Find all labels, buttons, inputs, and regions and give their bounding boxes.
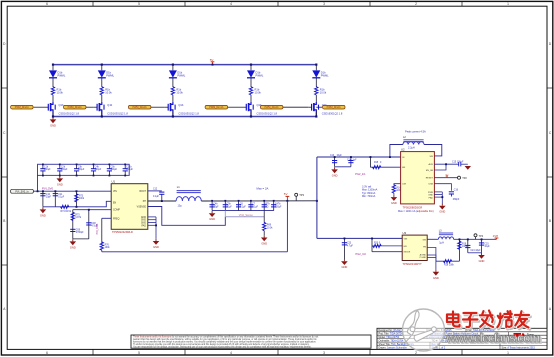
- svg-text:R18 100k: R18 100k: [444, 264, 455, 266]
- svg-text:4: 4: [230, 351, 232, 355]
- svg-text:PH: PH: [143, 201, 147, 203]
- svg-text:5: 5: [138, 351, 140, 355]
- svg-text:22µF: 22µF: [227, 206, 233, 208]
- svg-text:VSENSE: VSENSE: [137, 207, 147, 209]
- svg-text:PVI_5V0: PVI_5V0: [42, 187, 53, 191]
- svg-text:VIN: VIN: [113, 191, 117, 193]
- svg-text:AGND: AGND: [420, 253, 427, 256]
- svg-text:PG2_In3: PG2_In3: [356, 252, 367, 256]
- svg-text:C12: C12: [153, 188, 158, 190]
- svg-text:100µF: 100µF: [111, 169, 118, 171]
- svg-text:PG2_In1: PG2_In1: [355, 172, 366, 176]
- svg-text:EN: EN: [113, 203, 117, 205]
- svg-text:5: 5: [138, 2, 140, 6]
- svg-text:USB: USB: [429, 184, 434, 186]
- svg-text:3: 3: [323, 2, 325, 6]
- svg-text:Peak current 4.5A: Peak current 4.5A: [405, 130, 426, 134]
- svg-text:C16: C16: [454, 190, 459, 192]
- svg-text:1V8: 1V8: [493, 234, 499, 238]
- svg-text:1: 1: [507, 2, 509, 6]
- svg-text:CSD16301Q2 1.8: CSD16301Q2 1.8: [59, 112, 80, 116]
- svg-text:Drawn: Juergen Schneider: Drawn: Juergen Schneider: [379, 346, 408, 349]
- svg-text:R74 84.5k: R74 84.5k: [61, 211, 72, 213]
- svg-text:You are responsible for the de: You are responsible for the design, prod…: [133, 346, 312, 349]
- svg-text:TP4: TP4: [479, 235, 484, 238]
- svg-text:100k: 100k: [79, 198, 85, 200]
- svg-text:Size: A Texas Instruments 2015: Size: A Texas Instruments 2015: [502, 346, 536, 349]
- svg-text:Max = 1100 mA (adjustable Ilim: Max = 1100 mA (adjustable Ilim): [398, 210, 434, 213]
- svg-text:VIN: VIN: [404, 238, 408, 240]
- svg-text:TPS62080DSGR: TPS62080DSGR: [403, 205, 423, 209]
- svg-text:220µF: 220µF: [275, 206, 282, 208]
- svg-text:PGND: PGND: [420, 257, 427, 259]
- svg-text:U3: U3: [403, 231, 407, 235]
- svg-text:0.1µF: 0.1µF: [240, 206, 247, 208]
- svg-text:10µ: 10µ: [178, 205, 183, 208]
- svg-text:C47b: C47b: [275, 204, 281, 206]
- svg-text:1µF: 1µF: [353, 159, 358, 161]
- svg-text:10µF: 10µF: [337, 155, 343, 157]
- svg-text:C5b: C5b: [227, 204, 232, 206]
- svg-text:C24 43µF: C24 43µF: [470, 250, 481, 252]
- svg-text:100k: 100k: [105, 247, 111, 249]
- svg-text:2.2µH: 2.2µH: [408, 147, 415, 150]
- svg-text:100µF: 100µF: [95, 169, 102, 171]
- svg-text:2700pF: 2700pF: [76, 232, 84, 234]
- svg-text:1µH: 1µH: [439, 241, 444, 244]
- svg-text:B: B: [549, 219, 551, 223]
- svg-text:1: 1: [507, 351, 509, 355]
- svg-text:6: 6: [46, 2, 48, 6]
- svg-text:TPS562242DRLR: TPS562242DRLR: [112, 230, 133, 234]
- svg-text:4.7µF: 4.7µF: [347, 245, 354, 247]
- svg-text:TPS62231DRYT: TPS62231DRYT: [403, 262, 423, 266]
- svg-text:10.0k: 10.0k: [57, 91, 64, 95]
- svg-text:PVI_DIV1: PVI_DIV1: [96, 223, 99, 235]
- svg-text:R15: R15: [374, 162, 379, 164]
- svg-text:GND: GND: [141, 220, 146, 222]
- svg-text:100µF: 100µF: [78, 169, 85, 171]
- svg-text:C4b: C4b: [213, 204, 218, 206]
- svg-text:Min: 700mA: Min: 700mA: [362, 195, 376, 198]
- svg-text:PWR: PWR: [428, 192, 434, 194]
- svg-text:EN_SB: EN_SB: [426, 170, 434, 172]
- svg-text:TP2: TP2: [462, 177, 467, 180]
- svg-text:FREQ: FREQ: [113, 218, 120, 220]
- svg-text:EN: EN: [404, 246, 407, 248]
- svg-text:R20 0: R20 0: [374, 242, 381, 244]
- svg-text:10µF: 10µF: [484, 246, 490, 248]
- svg-text:Max = 2A: Max = 2A: [257, 187, 269, 191]
- svg-text:C15 100pF: C15 100pF: [452, 162, 464, 164]
- svg-text:COMP: COMP: [113, 210, 120, 212]
- svg-text:U1: U1: [112, 180, 116, 184]
- svg-text:6: 6: [46, 351, 48, 355]
- svg-text:BOOT: BOOT: [139, 191, 146, 193]
- svg-text:TP3: TP3: [299, 193, 304, 197]
- svg-text:10µF: 10µF: [46, 197, 52, 199]
- svg-text:B: B: [3, 219, 5, 223]
- svg-text:GND: GND: [141, 223, 146, 225]
- svg-text:0.1µF: 0.1µF: [252, 206, 259, 208]
- svg-text:4: 4: [230, 2, 232, 6]
- svg-text:VO2_Sense: VO2_Sense: [239, 213, 254, 217]
- svg-text:www.elecfans.com: www.elecfans.com: [445, 331, 540, 345]
- svg-text:3: 3: [323, 351, 325, 355]
- svg-text:100µF: 100µF: [126, 169, 133, 171]
- svg-text:PWML: PWML: [58, 74, 66, 78]
- svg-text:GND: GND: [428, 195, 433, 197]
- svg-text:C23: C23: [347, 243, 352, 245]
- svg-text:EN: EN: [402, 167, 405, 169]
- svg-text:5V: 5V: [210, 58, 214, 62]
- svg-text:2: 2: [415, 2, 417, 6]
- svg-text:0.1µF: 0.1µF: [153, 196, 160, 198]
- svg-text:22µF: 22µF: [213, 206, 219, 208]
- svg-text:5V: 5V: [284, 192, 288, 196]
- svg-text:R7b: R7b: [265, 204, 270, 206]
- svg-text:C14: C14: [347, 159, 352, 161]
- svg-text:0Ω: 0Ω: [265, 206, 268, 208]
- svg-text:PAD: PAD: [429, 197, 434, 200]
- svg-text:100µF: 100µF: [44, 169, 51, 171]
- svg-text:PVI_5V0_In: PVI_5V0_In: [15, 190, 29, 193]
- svg-text:RESET: RESET: [426, 178, 434, 180]
- svg-text:6.87k: 6.87k: [75, 217, 81, 219]
- svg-text:U2: U2: [401, 148, 405, 152]
- svg-text:Q1b: Q1b: [59, 103, 64, 107]
- svg-text:AUX: AUX: [429, 163, 434, 166]
- svg-text:0.1µF: 0.1µF: [58, 197, 65, 199]
- svg-text:2: 2: [415, 351, 417, 355]
- svg-text:LIM: LIM: [402, 184, 406, 186]
- svg-text:680pF: 680pF: [453, 199, 460, 201]
- svg-text:100µF: 100µF: [61, 169, 68, 171]
- svg-text:10.0k: 10.0k: [267, 227, 273, 229]
- svg-text:MODE: MODE: [404, 252, 411, 254]
- svg-text:PAD: PAD: [141, 224, 146, 227]
- svg-text:GND: GND: [141, 217, 146, 219]
